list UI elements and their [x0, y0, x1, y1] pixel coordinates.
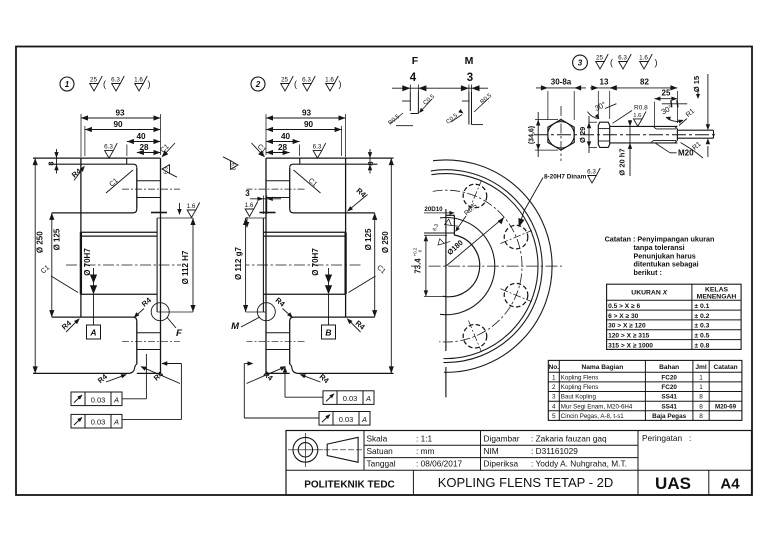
svg-text:25: 25 — [596, 54, 604, 61]
front view hub boss arc — [440, 218, 495, 315]
svg-text:(: ( — [103, 79, 106, 89]
drawing frame border — [16, 47, 752, 496]
parts list table — [548, 360, 742, 420]
title block outline — [286, 431, 752, 496]
svg-text:UKURAN X: UKURAN X — [631, 290, 667, 297]
detail M extension lines and arrows — [468, 85, 470, 93]
view 2 roughness on flange top — [313, 143, 326, 158]
svg-text:28: 28 — [139, 143, 149, 152]
svg-text:(: ( — [610, 58, 613, 68]
title block vertical dividers — [363, 431, 365, 471]
svg-text:R0.8: R0.8 — [634, 105, 648, 112]
view 2 flange face line — [265, 158, 267, 373]
svg-text:1.6: 1.6 — [134, 76, 143, 83]
svg-text:6.3: 6.3 — [313, 144, 322, 151]
svg-text:1: 1 — [65, 80, 70, 89]
svg-text:1.6: 1.6 — [325, 76, 334, 83]
view 1 hub face line — [80, 158, 82, 232]
view 1 dimension 93 — [81, 117, 161, 119]
bolt chamfer tick dimension — [662, 103, 687, 105]
svg-text:4: 4 — [410, 72, 417, 84]
view 1 bore lines — [80, 235, 157, 237]
svg-text:0.03: 0.03 — [343, 394, 358, 403]
svg-text:3: 3 — [578, 59, 583, 68]
svg-text:Nama Bagian: Nama Bagian — [581, 364, 623, 371]
svg-text:Ø 20 h7: Ø 20 h7 — [618, 148, 627, 175]
svg-text:6.3: 6.3 — [587, 168, 596, 175]
bolt dimension 82 — [676, 91, 678, 123]
svg-text:: D31161029: : D31161029 — [531, 446, 578, 456]
view 1 datum box — [87, 325, 101, 339]
view 1 bolt hole in flange section — [137, 180, 161, 182]
svg-text:MENENGAH: MENENGAH — [697, 294, 737, 301]
svg-text:Skala: Skala — [367, 434, 388, 444]
view 1 recess floor — [156, 218, 158, 312]
svg-text:Baut Kopling: Baut Kopling — [561, 394, 597, 401]
svg-text:20D10: 20D10 — [424, 206, 443, 213]
view 2 runout tolerance frame 2 — [319, 412, 370, 426]
svg-text:120 > X ≥ 315: 120 > X ≥ 315 — [608, 333, 650, 340]
svg-text:93: 93 — [302, 109, 312, 118]
view 2 hub face line — [345, 158, 347, 232]
view 2 dimension diameter 250 — [390, 158, 392, 373]
svg-text:Ø 125: Ø 125 — [364, 228, 373, 250]
roughness symbols group 2 — [281, 76, 294, 91]
view 1 flange top outline — [33, 157, 161, 159]
view 1 runout tolerance frame 2 — [71, 414, 122, 428]
svg-text:): ) — [339, 79, 342, 89]
svg-text:No.: No. — [548, 364, 559, 371]
svg-text:6 > X ≥ 30: 6 > X ≥ 30 — [608, 313, 639, 320]
front view bore arc — [443, 233, 480, 297]
view 1 dimension diameter 112 — [192, 218, 194, 312]
svg-text:4: 4 — [552, 403, 556, 410]
view 1 runout tolerance frame 1 — [71, 392, 122, 406]
detail F extension lines and arrows — [409, 85, 411, 93]
svg-text:8: 8 — [47, 161, 56, 165]
svg-text:1.6: 1.6 — [245, 202, 254, 209]
svg-text:Tanggal: Tanggal — [367, 459, 396, 469]
svg-text:: mm: : mm — [416, 446, 435, 456]
svg-text:1: 1 — [699, 375, 703, 382]
view 2 runout tolerance frame 1 — [323, 391, 374, 405]
svg-text:Ø 250: Ø 250 — [36, 231, 45, 253]
view 2 bolt hole in flange section — [266, 180, 290, 182]
front view keyway notch — [446, 214, 455, 216]
bolt dimension 13 — [597, 91, 599, 119]
front view bolt circle diameter 180 — [433, 190, 522, 342]
svg-text:315 > X ≥ 1000: 315 > X ≥ 1000 — [608, 342, 653, 349]
svg-text:1: 1 — [552, 375, 556, 382]
svg-text:UAS: UAS — [655, 474, 691, 493]
svg-text:FC20: FC20 — [661, 384, 677, 391]
svg-text:2: 2 — [552, 384, 556, 391]
view 2 keyway line — [263, 231, 345, 233]
svg-text:B: B — [325, 328, 331, 338]
view 2 spigot length dimension 3 — [262, 196, 264, 215]
svg-text:SS41: SS41 — [661, 403, 677, 410]
svg-text:Ø 112 g7: Ø 112 g7 — [234, 246, 243, 279]
svg-text:30 > X ≥ 120: 30 > X ≥ 120 — [608, 323, 646, 330]
svg-text:1.6: 1.6 — [633, 113, 641, 119]
svg-text:3: 3 — [552, 394, 556, 401]
view 1 roughness on flange face — [162, 165, 177, 178]
svg-text:Cincin Pegas, A-8, t-s1: Cincin Pegas, A-8, t-s1 — [561, 413, 624, 420]
svg-text:POLITEKNIK TEDC: POLITEKNIK TEDC — [304, 480, 395, 491]
svg-text:6.3: 6.3 — [111, 76, 120, 83]
title block horizontal dividers — [364, 444, 638, 446]
view 1 dimension 90 — [85, 129, 161, 131]
svg-text:± 0.8: ± 0.8 — [694, 342, 709, 349]
svg-text:: Yoddy A. Nuhgraha, M.T.: : Yoddy A. Nuhgraha, M.T. — [531, 459, 627, 469]
front view bolt circle dimension diameter 180 — [446, 217, 504, 266]
bolt dimension 25 — [653, 102, 655, 127]
bolt dimension diameter 20h7 — [629, 120, 631, 176]
svg-text:(34,6): (34,6) — [529, 126, 536, 144]
svg-text:93: 93 — [115, 109, 125, 118]
view 1 dimension 40 — [127, 141, 161, 143]
bolt dimension diameter 15 label — [707, 74, 709, 128]
svg-text:40: 40 — [281, 132, 291, 141]
svg-text:: 08/06/2017: : 08/06/2017 — [416, 459, 463, 469]
svg-text:M20: M20 — [678, 149, 694, 158]
view marker circled 2 — [251, 77, 265, 91]
view 2 dimension 90 — [266, 129, 342, 131]
svg-text:0.03: 0.03 — [339, 415, 354, 424]
svg-text:Ø 70H7: Ø 70H7 — [83, 248, 92, 276]
svg-text:Mur Segi Enam, M20-6H4: Mur Segi Enam, M20-6H4 — [561, 403, 633, 410]
svg-text:Digambar: Digambar — [484, 434, 520, 444]
front view flange outer arcs — [431, 174, 538, 359]
svg-text:Ø 70H7: Ø 70H7 — [311, 248, 320, 276]
svg-text:M: M — [231, 321, 240, 332]
svg-text:(: ( — [294, 79, 297, 89]
view 1 detail circle F — [151, 303, 169, 321]
svg-text:Jml: Jml — [695, 364, 707, 371]
view 2 flange back face — [289, 168, 291, 209]
svg-text:82: 82 — [640, 78, 649, 87]
bolt head side view — [598, 122, 609, 147]
svg-text:6.3: 6.3 — [618, 54, 627, 61]
view 2 dimension diameter 125 — [374, 213, 376, 317]
view 2 fillet label R4 groove bottom right — [247, 367, 286, 384]
view 1 flange bottom outline — [33, 372, 129, 374]
svg-text:8: 8 — [699, 394, 703, 401]
svg-text:1.6: 1.6 — [639, 54, 648, 61]
svg-text:6.3: 6.3 — [164, 167, 170, 174]
view 1 flange back face — [136, 168, 138, 209]
view 2 spigot face — [262, 218, 264, 312]
view 1 dimension diameter 125 — [51, 213, 53, 317]
bolt hex head vertical centerline — [560, 106, 562, 161]
svg-text:Peringatan :: Peringatan : — [642, 433, 691, 443]
svg-text:Baja Pegas: Baja Pegas — [652, 413, 687, 420]
svg-text:25: 25 — [281, 76, 289, 83]
svg-text:8: 8 — [699, 413, 703, 420]
svg-text:A: A — [361, 415, 367, 424]
svg-text:A4: A4 — [720, 476, 740, 493]
svg-text:90: 90 — [304, 120, 314, 129]
view 2 spigot edge extension lines — [246, 217, 266, 219]
view marker circled 1 — [60, 77, 74, 91]
svg-text:8: 8 — [699, 403, 703, 410]
bolt hex head front view hexagon — [548, 120, 574, 151]
svg-text:FC20: FC20 — [661, 375, 677, 382]
view 2 recess depth mark cluster — [260, 212, 276, 214]
bolt hex head inscribed circle — [548, 122, 574, 148]
svg-text:Bahan: Bahan — [659, 364, 679, 371]
bolt shank — [610, 125, 678, 127]
front view horizontal centerline — [411, 265, 417, 267]
svg-text:25: 25 — [662, 88, 671, 97]
front view outermost arc diameter 250 — [433, 160, 552, 372]
svg-text:13: 13 — [600, 78, 609, 87]
svg-text:Ø 112 H7: Ø 112 H7 — [181, 250, 190, 284]
svg-text:A: A — [89, 328, 96, 338]
svg-text:Kopling Flens: Kopling Flens — [561, 375, 599, 382]
view 1 dimension 28 — [137, 152, 161, 154]
svg-text:1.6: 1.6 — [187, 203, 196, 210]
bolt dimension 34.6 — [535, 119, 558, 121]
view 2 hub outline — [294, 212, 375, 214]
svg-text:30-8a: 30-8a — [551, 78, 572, 87]
svg-text:± 0.5: ± 0.5 — [694, 333, 709, 340]
svg-text:8: 8 — [366, 161, 375, 165]
view 2 dimension 8 — [369, 149, 371, 174]
view 2 axis centerline — [246, 264, 361, 266]
svg-text:1: 1 — [699, 384, 703, 391]
svg-text:Ø 29: Ø 29 — [578, 127, 587, 143]
svg-text:3: 3 — [467, 72, 473, 84]
view 1 fillet label R4 groove bottom right — [142, 367, 181, 384]
view marker circled 3 and roughness group — [573, 55, 588, 70]
view 2 flange bottom outline — [298, 372, 394, 374]
tolerance table — [607, 284, 742, 349]
front view roughness 6.3 near keyway — [443, 217, 458, 231]
svg-text:F: F — [412, 55, 419, 67]
svg-text:Kopling Flens: Kopling Flens — [561, 384, 599, 391]
svg-text:A: A — [365, 394, 371, 403]
svg-text:± 0.2: ± 0.2 — [694, 313, 709, 320]
svg-text:0.03: 0.03 — [91, 418, 106, 427]
front view bolt holes — [463, 184, 487, 208]
projection symbol — [293, 437, 318, 462]
view 1 axis centerline — [66, 264, 181, 266]
svg-text:8-20H7 Dinam: 8-20H7 Dinam — [544, 174, 587, 181]
view 1 hub outline — [52, 212, 133, 214]
svg-text:Ø 125: Ø 125 — [52, 228, 61, 250]
svg-text:M20-69: M20-69 — [715, 403, 737, 410]
svg-text:0.5 > X ≥ 6: 0.5 > X ≥ 6 — [608, 303, 640, 310]
svg-text:90: 90 — [113, 120, 123, 129]
svg-text:28: 28 — [278, 143, 288, 152]
view 2 flange top outline — [266, 157, 394, 159]
view 2 roughness on flange face — [223, 157, 238, 170]
view 1 recess depth mark cluster — [151, 212, 167, 214]
bolt roughness 1.6 on shank — [633, 111, 646, 126]
svg-text:5: 5 — [552, 413, 556, 420]
view 2 bore lines — [263, 235, 345, 237]
svg-text:3: 3 — [245, 189, 250, 198]
svg-text:: Zakaria fauzan gaq: : Zakaria fauzan gaq — [531, 434, 607, 444]
view 2 dimension 40 — [266, 141, 300, 143]
svg-text:F: F — [176, 328, 182, 339]
svg-text:KELAS: KELAS — [705, 286, 729, 293]
svg-text:Catatan: Catatan — [713, 364, 737, 371]
svg-text:A: A — [113, 395, 119, 404]
svg-text:Diperiksa: Diperiksa — [484, 459, 519, 469]
svg-text:6.3: 6.3 — [230, 163, 236, 170]
svg-text:SS41: SS41 — [661, 394, 677, 401]
view 1 dimension diameter 250 — [34, 158, 36, 373]
view 2 dimension diameter 112 — [245, 218, 247, 312]
svg-text:± 0.3: ± 0.3 — [694, 323, 709, 330]
view 1 dimension 8 — [56, 149, 58, 174]
view 1 recess edge extension lines — [157, 217, 193, 219]
svg-text:Ø 15: Ø 15 — [692, 76, 701, 92]
front view break edge line — [445, 209, 447, 351]
svg-text:KOPLING FLENS TETAP - 2D: KOPLING FLENS TETAP - 2D — [438, 475, 614, 490]
bolt thread minor lines M20 — [656, 128, 676, 130]
svg-text:M: M — [465, 55, 474, 67]
svg-text:Catatan : Penyimpangan ukuran: Catatan : Penyimpangan ukuran — [605, 235, 715, 244]
roughness symbols group 1 — [90, 76, 103, 91]
svg-text:NIM: NIM — [484, 446, 499, 456]
bolt centerline — [534, 134, 716, 136]
view 2 dimension 93 — [266, 117, 346, 119]
detail F and M shared dimension line — [392, 87, 488, 89]
view 1 keyway line — [80, 231, 157, 233]
svg-text:Satuan: Satuan — [367, 446, 394, 456]
detail M sketch — [468, 92, 470, 125]
svg-text:25: 25 — [90, 76, 98, 83]
svg-text:6.3: 6.3 — [104, 144, 113, 151]
bolt pilot end diameter 15 — [677, 129, 713, 131]
svg-text:berikut :: berikut : — [634, 268, 662, 277]
svg-text:: 1:1: : 1:1 — [416, 434, 433, 444]
svg-text:± 0.1: ± 0.1 — [694, 303, 709, 310]
view 2 datum box — [322, 325, 336, 339]
view 2 detail circle M — [257, 303, 275, 321]
svg-text:40: 40 — [136, 132, 146, 141]
svg-text:): ) — [655, 58, 658, 68]
detail F sketch — [409, 92, 411, 111]
svg-text:0.03: 0.03 — [91, 395, 106, 404]
bolt dimension diameter 29 — [588, 116, 590, 153]
view 1 roughness on flange top — [104, 143, 117, 158]
svg-text:): ) — [148, 79, 151, 89]
view 1 flange face line — [160, 158, 162, 373]
svg-text:2: 2 — [255, 80, 261, 89]
svg-text:A: A — [113, 418, 119, 427]
svg-text:Ø 250: Ø 250 — [381, 231, 390, 253]
svg-text:73.4: 73.4 — [414, 258, 423, 274]
front view keyway depth dimension 73.4 — [425, 235, 427, 296]
view 2 dimension 28 — [266, 152, 290, 154]
svg-text:6.3: 6.3 — [302, 76, 311, 83]
bolt dimension 30-8a — [547, 91, 549, 120]
